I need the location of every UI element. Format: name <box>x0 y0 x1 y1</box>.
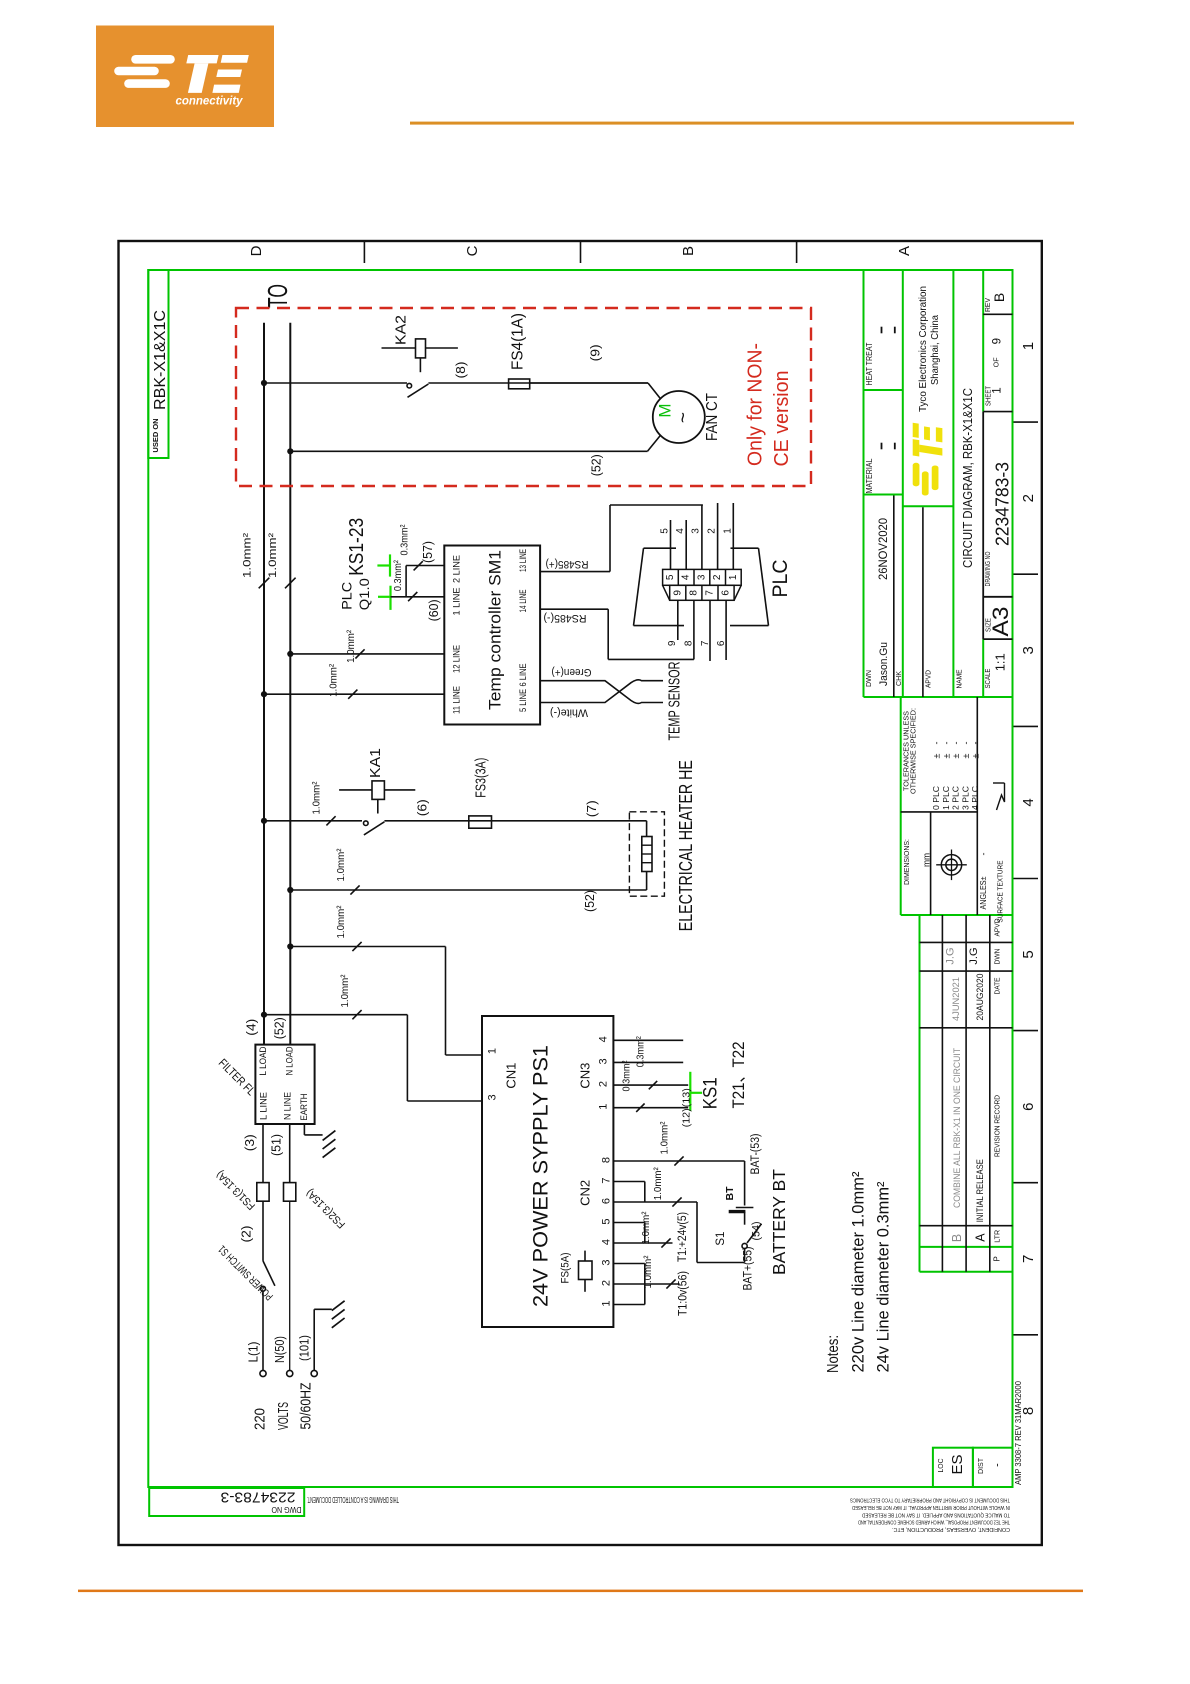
svg-text:HEAT TREAT: HEAT TREAT <box>865 342 874 385</box>
svg-text:PLC: PLC <box>340 582 355 610</box>
svg-text:9: 9 <box>667 640 678 646</box>
svg-text:Shanghai, China: Shanghai, China <box>929 315 941 385</box>
svg-text:(9): (9) <box>589 344 603 361</box>
svg-text:0.3mm²: 0.3mm² <box>634 1036 646 1067</box>
svg-text:±: ± <box>941 753 951 758</box>
svg-text:8: 8 <box>683 640 694 646</box>
svg-text:DWN: DWN <box>993 949 1002 965</box>
svg-text:N(50): N(50) <box>273 1336 287 1363</box>
svg-text:20AUG2020: 20AUG2020 <box>975 974 986 1021</box>
svg-text:Temp controller SM1: Temp controller SM1 <box>486 550 505 710</box>
svg-text:B: B <box>950 1234 964 1242</box>
svg-text:3: 3 <box>487 1094 499 1100</box>
svg-text:S1: S1 <box>715 1232 727 1246</box>
svg-text:THIS DRAWING IS A CONTROLLED D: THIS DRAWING IS A CONTROLLED DOCUMENT. <box>307 1495 399 1505</box>
svg-text:1.0mm²: 1.0mm² <box>652 1167 664 1200</box>
svg-text:6: 6 <box>1020 1103 1037 1111</box>
svg-text:1.0mm²: 1.0mm² <box>642 1255 654 1288</box>
svg-text:THIS DOCUMENT IS COPYRIGHT AND: THIS DOCUMENT IS COPYRIGHT AND PROPRIETA… <box>850 1497 1010 1503</box>
svg-text:5 LINE: 5 LINE <box>518 689 529 712</box>
svg-text:CN2: CN2 <box>578 1180 593 1206</box>
svg-text:KA2: KA2 <box>394 315 410 345</box>
svg-text:MATERIAL: MATERIAL <box>865 458 874 493</box>
svg-text:TEMP SENSOR: TEMP SENSOR <box>667 662 684 741</box>
svg-text:220v Line diameter 1.0mm²: 220v Line diameter 1.0mm² <box>849 1171 868 1372</box>
svg-text:L LOAD: L LOAD <box>258 1046 269 1075</box>
svg-text:OF: OF <box>991 357 1000 367</box>
svg-text:DWG NO: DWG NO <box>272 1505 302 1514</box>
svg-text:24v Line diameter 0.3mm²: 24v Line diameter 0.3mm² <box>874 1181 893 1372</box>
svg-text:~: ~ <box>674 412 695 423</box>
svg-text:EARTH: EARTH <box>299 1093 310 1120</box>
svg-text:5: 5 <box>601 1218 613 1224</box>
svg-text:1: 1 <box>728 574 739 580</box>
svg-text:(8): (8) <box>454 362 468 379</box>
svg-text:2 LINE: 2 LINE <box>451 555 462 583</box>
svg-text:USED ON: USED ON <box>151 418 160 452</box>
svg-text:-: - <box>971 742 981 745</box>
svg-text:A: A <box>974 1233 988 1242</box>
svg-text:(7): (7) <box>585 800 599 817</box>
svg-text:3: 3 <box>691 528 702 534</box>
svg-text:SURFACE TEXTURE: SURFACE TEXTURE <box>996 861 1005 923</box>
svg-text:6: 6 <box>716 640 727 646</box>
svg-text:B: B <box>680 246 697 256</box>
svg-text:4: 4 <box>1020 798 1037 806</box>
svg-text:2: 2 <box>598 1081 610 1087</box>
svg-text:(57): (57) <box>421 541 435 563</box>
svg-text:N LINE: N LINE <box>283 1092 294 1120</box>
svg-text:OTHERWISE SPECIFIED:: OTHERWISE SPECIFIED: <box>908 708 917 794</box>
svg-text:Only for NON-: Only for NON- <box>745 343 767 466</box>
svg-text:LTR: LTR <box>993 1229 1002 1243</box>
svg-text:J.G: J.G <box>968 947 980 964</box>
svg-text:RS485(-): RS485(-) <box>544 612 587 624</box>
svg-text:Green(+): Green(+) <box>552 666 592 678</box>
svg-text:±: ± <box>961 753 971 758</box>
svg-text:INITIAL RELEASE: INITIAL RELEASE <box>975 1159 986 1222</box>
svg-text:Notes:: Notes: <box>825 1335 842 1373</box>
svg-text:BT: BT <box>724 1186 736 1201</box>
svg-text:AMP 3308-7 REV 31MAR2000: AMP 3308-7 REV 31MAR2000 <box>1014 1380 1023 1485</box>
svg-text:(12): (12) <box>680 1108 692 1127</box>
svg-text:50/60HZ: 50/60HZ <box>297 1383 314 1430</box>
svg-text:COMBINE ALL RBK-X1 IN ONE CIRC: COMBINE ALL RBK-X1 IN ONE CIRCUIT <box>952 1048 963 1208</box>
svg-text:5: 5 <box>659 528 670 534</box>
svg-text:CHK: CHK <box>894 671 903 686</box>
svg-text:2234783-3: 2234783-3 <box>221 1489 296 1506</box>
svg-text:B: B <box>991 293 1007 302</box>
svg-text:J.G: J.G <box>945 947 957 964</box>
svg-text:9: 9 <box>672 590 683 596</box>
svg-text:PLC: PLC <box>769 560 792 598</box>
svg-text:1.0mm²: 1.0mm² <box>658 1121 670 1154</box>
svg-text:7: 7 <box>705 590 716 596</box>
svg-text:KA1: KA1 <box>368 748 384 778</box>
svg-text:1 PLC: 1 PLC <box>942 786 951 810</box>
svg-text:0 PLC: 0 PLC <box>932 786 941 810</box>
svg-text:3: 3 <box>601 1259 613 1265</box>
svg-text:(4): (4) <box>245 1019 259 1036</box>
svg-text:3 PLC: 3 PLC <box>961 786 970 810</box>
svg-text:CONFIDENT, OVERSEAS, PRODUCTIO: CONFIDENT, OVERSEAS, PRODUCTION, ETC. <box>892 1526 1010 1532</box>
svg-text:1.0mm²: 1.0mm² <box>327 663 339 696</box>
svg-text:REVISION RECORD: REVISION RECORD <box>993 1094 1002 1157</box>
svg-text:1: 1 <box>601 1300 613 1306</box>
svg-text:(52): (52) <box>583 890 597 912</box>
svg-text:1: 1 <box>487 1048 499 1054</box>
svg-text:3: 3 <box>598 1058 610 1064</box>
svg-text:2: 2 <box>601 1280 613 1286</box>
svg-text:CE version: CE version <box>771 371 793 467</box>
svg-text:1.0mm²: 1.0mm² <box>242 533 254 578</box>
svg-text:2 PLC: 2 PLC <box>952 786 961 810</box>
svg-text:APVD: APVD <box>924 669 933 688</box>
svg-text:THE TE2 DOCUMENT PROPOSAL, WHI: THE TE2 DOCUMENT PROPOSAL, WHICH ARMED S… <box>858 1519 1010 1525</box>
svg-text:±: ± <box>932 753 942 758</box>
svg-text:VOLTS: VOLTS <box>275 1402 292 1430</box>
svg-text:DWN: DWN <box>864 670 873 687</box>
svg-text:White(-): White(-) <box>550 706 588 718</box>
svg-text:1: 1 <box>991 387 1003 393</box>
svg-text:connectivity: connectivity <box>175 96 243 108</box>
svg-text:D: D <box>248 245 265 256</box>
svg-text:7: 7 <box>1020 1255 1037 1263</box>
svg-text:12 LINE: 12 LINE <box>451 645 462 673</box>
svg-text:4: 4 <box>601 1239 613 1245</box>
svg-text:A: A <box>896 246 913 256</box>
svg-text:1.0mm²: 1.0mm² <box>267 533 279 578</box>
svg-text:C: C <box>464 245 481 256</box>
svg-text:RBK-X1&X1C: RBK-X1&X1C <box>152 310 169 410</box>
svg-text:TO MALICE QUOTATIONS AND APPLI: TO MALICE QUOTATIONS AND APPLIED. IT SAY… <box>862 1511 1010 1517</box>
svg-text:(6): (6) <box>416 799 430 816</box>
svg-text:mm: mm <box>922 853 932 867</box>
svg-text:(13): (13) <box>680 1088 692 1107</box>
svg-text:FS3(3A): FS3(3A) <box>473 758 490 798</box>
svg-text:2: 2 <box>1020 494 1037 502</box>
svg-text:(3): (3) <box>243 1134 257 1151</box>
svg-text:L LINE: L LINE <box>259 1092 270 1120</box>
svg-text:(52): (52) <box>590 454 604 476</box>
svg-text:3: 3 <box>696 574 707 580</box>
svg-text:ANGLES±: ANGLES± <box>979 876 988 910</box>
svg-text:0.3mm²: 0.3mm² <box>392 560 404 591</box>
svg-text:SCALE: SCALE <box>983 669 992 689</box>
svg-text:±: ± <box>971 753 981 758</box>
svg-text:3: 3 <box>1020 646 1037 654</box>
svg-text:±: ± <box>951 753 961 758</box>
svg-text:-: - <box>961 742 971 745</box>
svg-text:TO: TO <box>262 284 293 308</box>
svg-text:1: 1 <box>598 1104 610 1110</box>
svg-text:6 LINE: 6 LINE <box>518 664 529 687</box>
svg-text:1: 1 <box>722 528 733 534</box>
svg-text:P: P <box>993 1256 1002 1261</box>
svg-text:IN WHOLE WITHOUT PRIOR WRITTEN: IN WHOLE WITHOUT PRIOR WRITTEN APPROVAL.… <box>852 1504 1010 1510</box>
svg-text:1.0mm²: 1.0mm² <box>311 781 323 814</box>
svg-text:1 LINE: 1 LINE <box>451 588 462 616</box>
svg-text:FS4(1A): FS4(1A) <box>510 313 527 370</box>
svg-text:(52): (52) <box>272 1017 286 1039</box>
svg-text:DATE: DATE <box>993 978 1002 995</box>
svg-text:ELECTRICAL HEATER HE: ELECTRICAL HEATER HE <box>676 760 696 931</box>
svg-text:220: 220 <box>251 1408 268 1430</box>
svg-text:T21、T22: T21、T22 <box>729 1042 748 1109</box>
svg-text:BATTERY BT: BATTERY BT <box>769 1169 789 1275</box>
svg-text:1.0mm²: 1.0mm² <box>335 848 347 881</box>
svg-text:7: 7 <box>700 640 711 646</box>
svg-text:4: 4 <box>675 528 686 534</box>
svg-text:5: 5 <box>665 574 676 580</box>
svg-text:-: - <box>979 853 989 856</box>
svg-text:0.3mm²: 0.3mm² <box>399 524 411 555</box>
svg-text:6: 6 <box>601 1198 613 1204</box>
svg-text:1.0mm²: 1.0mm² <box>339 974 351 1007</box>
svg-text:A3: A3 <box>988 607 1013 637</box>
svg-text:13 LINE: 13 LINE <box>518 549 529 572</box>
svg-text:BAT+(55): BAT+(55) <box>743 1246 755 1290</box>
svg-text:KS1-23: KS1-23 <box>346 518 368 576</box>
svg-text:CN1: CN1 <box>504 1063 519 1089</box>
svg-text:Q1.0: Q1.0 <box>357 578 372 610</box>
svg-text:1.0mm²: 1.0mm² <box>345 629 357 662</box>
svg-text:(101): (101) <box>297 1335 311 1361</box>
svg-text:M: M <box>656 403 675 417</box>
svg-text:-: - <box>951 742 961 745</box>
svg-text:4 PLC: 4 PLC <box>971 786 980 810</box>
svg-text:7: 7 <box>601 1177 613 1183</box>
svg-text:1.0mm²: 1.0mm² <box>335 905 347 938</box>
svg-text:NAME: NAME <box>955 670 964 689</box>
svg-text:(51): (51) <box>269 1134 283 1156</box>
svg-text:DIST: DIST <box>976 1458 985 1474</box>
svg-text:N LOAD: N LOAD <box>285 1046 296 1075</box>
svg-text:8: 8 <box>688 590 699 596</box>
svg-text:FS(5A): FS(5A) <box>560 1253 572 1284</box>
svg-text:6: 6 <box>721 590 732 596</box>
svg-text:(60): (60) <box>427 599 441 621</box>
svg-text:DRAWING NO: DRAWING NO <box>983 551 992 586</box>
svg-text:T1:+24v(5): T1:+24v(5) <box>677 1212 689 1262</box>
svg-text:1: 1 <box>1020 342 1037 350</box>
svg-text:2: 2 <box>707 528 718 534</box>
svg-text:LOC: LOC <box>936 1458 945 1473</box>
svg-text:14 LINE: 14 LINE <box>518 590 529 613</box>
svg-text:2234783-3: 2234783-3 <box>992 462 1013 546</box>
svg-text:11 LINE: 11 LINE <box>451 686 462 714</box>
svg-text:4: 4 <box>681 574 692 580</box>
svg-text:FAN CT: FAN CT <box>704 393 721 441</box>
svg-text:APVD: APVD <box>993 918 1002 937</box>
svg-text:RS485(+): RS485(+) <box>546 558 589 570</box>
svg-text:5: 5 <box>1020 950 1037 958</box>
svg-text:T1:0v(56): T1:0v(56) <box>678 1271 690 1316</box>
svg-text:-: - <box>941 742 951 745</box>
svg-text:BAT-(53): BAT-(53) <box>750 1133 762 1174</box>
svg-text:Tyco Electronics Corporation: Tyco Electronics Corporation <box>917 286 929 412</box>
svg-text:ES: ES <box>949 1454 966 1474</box>
svg-text:0.3mm²: 0.3mm² <box>620 1060 632 1091</box>
svg-text:L(1): L(1) <box>246 1342 260 1363</box>
svg-text:8: 8 <box>601 1157 613 1163</box>
svg-text:(54): (54) <box>751 1222 763 1241</box>
svg-text:CN3: CN3 <box>578 1063 593 1089</box>
svg-text:DIMENSIONS:: DIMENSIONS: <box>902 839 911 885</box>
svg-text:Jason.Gu: Jason.Gu <box>878 642 890 686</box>
svg-text:KS1: KS1 <box>701 1077 722 1109</box>
svg-text:(2): (2) <box>240 1226 254 1243</box>
svg-text:2: 2 <box>712 574 723 580</box>
svg-text:1.0mm²: 1.0mm² <box>640 1211 652 1244</box>
svg-text:-: - <box>932 742 942 745</box>
svg-text:24V POWER SYPPLY PS1: 24V POWER SYPPLY PS1 <box>529 1045 552 1307</box>
svg-text:4: 4 <box>598 1036 610 1042</box>
svg-text:26NOV2020: 26NOV2020 <box>878 518 890 580</box>
svg-text:CIRCUIT DIAGRAM, RBK-X1&X1C: CIRCUIT DIAGRAM, RBK-X1&X1C <box>960 388 975 568</box>
svg-text:-: - <box>992 1463 1004 1467</box>
svg-text:1:1: 1:1 <box>993 653 1007 671</box>
svg-text:4JUN2021: 4JUN2021 <box>951 977 962 1021</box>
svg-text:9: 9 <box>991 338 1003 344</box>
